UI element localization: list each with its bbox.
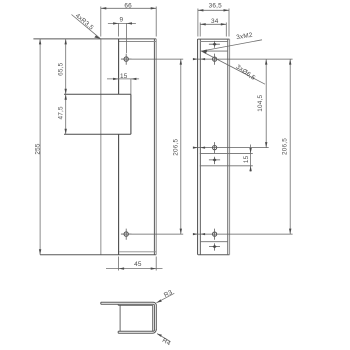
dim 47,5 arrows xyxy=(65,94,67,134)
label 4xR3,5 leader xyxy=(72,15,101,39)
label 3xO6,5 leader xyxy=(201,51,265,84)
inner box right line xyxy=(152,305,154,331)
plate bottom edge (with 255-dim extension to left) xyxy=(40,254,156,256)
SV hole2 circle xyxy=(213,146,217,150)
hole bottom axis line to 206,5 dim xyxy=(121,233,183,235)
hole top axis line to 206,5 dim xyxy=(121,58,183,60)
dim 34 arrows xyxy=(200,23,226,25)
dim 45 arrows xyxy=(119,267,157,269)
label 3xM2 leader xyxy=(201,40,262,51)
side internal line mid upper xyxy=(200,152,253,154)
svg-text:15: 15 xyxy=(243,155,250,163)
bottom strip top line with inner bend xyxy=(118,330,154,331)
label R4 leader xyxy=(157,334,170,342)
bend line lower part xyxy=(118,134,120,255)
dim 45 ext right xyxy=(155,257,157,271)
dim 9 arrows (outside) xyxy=(113,22,132,24)
svg-text:9: 9 xyxy=(120,17,124,24)
dim 15 side arrows (outside) xyxy=(249,148,251,171)
dim 34 ext left xyxy=(199,23,201,37)
SV M2 hole top xyxy=(209,41,220,48)
SV hole3 sheet arrows xyxy=(193,233,205,235)
SV M2 hole mid xyxy=(209,157,220,164)
dim 66 ext right xyxy=(155,7,157,37)
plate left edge xyxy=(100,39,102,255)
dim 45 ext left xyxy=(118,257,120,271)
SV hole3 crosshair xyxy=(214,229,216,240)
svg-text:36,5: 36,5 xyxy=(209,3,222,10)
inner box step at left xyxy=(117,304,119,305)
dim 36,5 ext left xyxy=(197,9,199,37)
side internal line mid lower xyxy=(200,165,253,167)
svg-text:206,5: 206,5 xyxy=(282,138,289,155)
svg-text:15: 15 xyxy=(120,73,128,80)
SV hole2 crosshair xyxy=(214,142,216,153)
dim 104,5 arrows xyxy=(265,59,267,148)
dim 66 line xyxy=(101,7,156,9)
dim 15 arrows (outside) xyxy=(113,78,136,80)
notch bottom edge + extension left xyxy=(64,133,131,135)
plate right edge outer line xyxy=(155,39,157,255)
svg-text:255: 255 xyxy=(35,143,42,155)
SV hole1 circle xyxy=(213,57,217,61)
svg-text:104,5: 104,5 xyxy=(257,94,264,111)
back flange top edge seen through xyxy=(119,41,157,43)
hole top circle xyxy=(124,57,128,61)
bottom strip left cap xyxy=(117,331,119,333)
dim 45 line xyxy=(106,268,163,270)
dim 66 ext left xyxy=(100,7,102,37)
svg-text:66: 66 xyxy=(124,3,132,10)
dim 65,5 / 47,5 line xyxy=(65,39,67,134)
plate top edge (with 255-dim extension to left) xyxy=(33,38,156,40)
dim 255 line xyxy=(39,39,41,255)
inner box top line xyxy=(118,304,153,306)
side internal line top xyxy=(200,50,228,52)
dim 65,5 arrows xyxy=(65,39,67,94)
label R4 arrow xyxy=(157,334,162,337)
label 3xM2 arrow xyxy=(201,50,207,52)
svg-text:206,5: 206,5 xyxy=(173,138,180,155)
SV hole3 circle xyxy=(213,232,217,236)
label 3xO6,5 arrow xyxy=(201,51,206,54)
dim 34 line xyxy=(200,23,226,25)
dim 15 side line xyxy=(250,145,252,172)
side right inner line xyxy=(227,39,229,255)
dim 9 line xyxy=(108,22,136,24)
notch top edge + extension left xyxy=(64,93,131,95)
dim 9 ext right xyxy=(126,23,128,53)
SV M2 hole bottom xyxy=(209,243,220,250)
inner box left line xyxy=(119,305,121,331)
SV hole3 axis line xyxy=(193,233,293,235)
svg-text:47,5: 47,5 xyxy=(58,106,65,119)
plate right edge inner line xyxy=(153,39,155,255)
dim 104,5 line xyxy=(265,59,267,148)
bottom strip bottom line with right bend xyxy=(118,329,156,333)
side top edge xyxy=(198,38,230,40)
sheet back surface line xyxy=(199,39,201,255)
svg-text:34: 34 xyxy=(211,18,219,25)
SV hole2 axis line xyxy=(193,147,269,149)
hole bottom crosshair xyxy=(121,229,132,240)
hole bottom circle xyxy=(124,232,128,236)
side top inner edge xyxy=(200,41,228,43)
dim 36,5 arrows xyxy=(198,9,229,11)
dim 36,5 ext right xyxy=(228,9,230,37)
dim 9 ext left (above plate) xyxy=(118,23,120,37)
face strip top line with right bend xyxy=(101,302,157,330)
label R3 arrow xyxy=(156,299,161,302)
SV hole1 axis line to dims xyxy=(193,58,293,60)
dim 15 front line xyxy=(107,78,139,80)
SV hole2 sheet arrows xyxy=(193,147,205,149)
dim 206,5 left line xyxy=(180,59,182,234)
dim 66 arrows xyxy=(101,7,156,9)
label R3 leader xyxy=(156,293,174,303)
dim 34 ext right xyxy=(225,23,227,37)
dim 15 ext right xyxy=(130,79,132,95)
back flange bottom edge seen through xyxy=(119,251,156,253)
svg-text:65,5: 65,5 xyxy=(58,62,65,75)
bend line / back flange left edge upper part xyxy=(118,39,120,94)
face strip bottom line with inner bend xyxy=(101,304,155,330)
sheet front surface line xyxy=(197,39,199,255)
svg-text:45: 45 xyxy=(134,261,142,268)
face strip left cap xyxy=(100,302,102,304)
SV hole1 sheet arrows xyxy=(193,58,205,60)
notch right edge xyxy=(130,94,132,134)
side bottom edge xyxy=(198,254,230,256)
label 4xR3,5 arrow xyxy=(94,36,100,39)
dim 206,5 right line xyxy=(289,59,291,234)
side right outer line xyxy=(229,39,231,255)
dim 206,5 right arrows xyxy=(289,59,291,234)
hole top crosshair xyxy=(121,54,132,65)
dim 255 arrows xyxy=(39,39,41,255)
side internal line bottom xyxy=(200,241,228,243)
SV hole1 crosshair xyxy=(214,54,216,65)
dim 36,5 line xyxy=(198,9,229,11)
dim 206,5 left arrows xyxy=(180,59,182,234)
